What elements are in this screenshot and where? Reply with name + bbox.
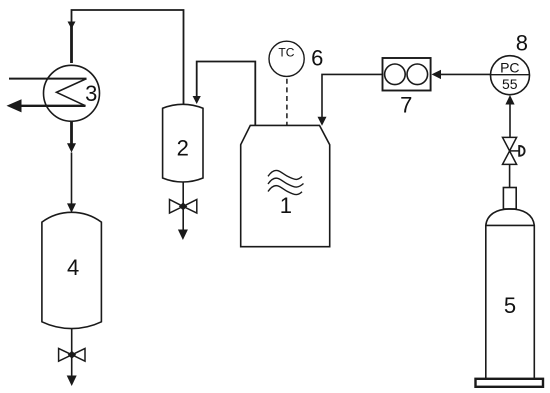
wave 3 (268, 186, 302, 195)
valve on cylinder line (503, 137, 520, 164)
dashed wire TC to reactor (286, 79, 288, 125)
arrow into heat exchanger top (68, 22, 76, 30)
cylinder 5 body (486, 209, 535, 379)
valve below tank 4 (59, 348, 85, 361)
arrow into tank 4 (67, 203, 76, 212)
heat exchanger coil zigzag (57, 79, 87, 106)
svg-text:PC: PC (500, 60, 519, 76)
pump box 7 (383, 58, 431, 91)
arrow outlet left (7, 99, 22, 112)
svg-text:7: 7 (400, 92, 412, 117)
wire: heat exchanger to tank 4 (thick) (70, 121, 73, 144)
svg-text:TC: TC (278, 46, 294, 60)
PC diameter line (491, 74, 530, 76)
wire: pump 7 to reactor 1 (322, 74, 383, 117)
pump circle right (407, 64, 428, 85)
arrow mid (67, 143, 76, 152)
svg-text:4: 4 (67, 255, 79, 280)
valve below vessel 2 (170, 200, 197, 214)
svg-text:1: 1 (280, 193, 292, 218)
svg-text:2: 2 (177, 136, 189, 161)
svg-text:6: 6 (311, 45, 323, 70)
reactor vessel 1 (241, 125, 330, 246)
arrow drain vessel 2 (178, 230, 188, 241)
wire: vapor line vessel 1 to vessel 2 (197, 62, 256, 126)
valve center dot (68, 351, 76, 359)
heat exchanger inlet line (9, 78, 87, 80)
wire: PC 8 to pump 7 (440, 73, 491, 75)
svg-text:3: 3 (85, 81, 97, 106)
valve center dot (179, 202, 187, 210)
tank 4 (42, 212, 102, 328)
wire: valve to PC (509, 103, 511, 137)
wire: cylinder to valve (509, 164, 511, 187)
wire: down to tank 4 (71, 153, 73, 205)
heat exchanger outlet line (19, 105, 86, 107)
wire: top return line into heat exchanger 3 (72, 10, 184, 104)
svg-text:8: 8 (516, 30, 528, 55)
arrow into reactor top (318, 117, 327, 126)
wave 1 (268, 170, 302, 179)
wire: tank 4 drain (71, 328, 73, 376)
arrow into vessel 2 top (193, 96, 201, 104)
vessel 2 (163, 104, 203, 182)
wire: vessel 2 drain (182, 182, 184, 230)
pump circle left (385, 64, 406, 85)
heat exchanger circle 3 (44, 65, 100, 121)
cylinder base (476, 379, 544, 387)
cylinder shoulder line (486, 224, 535, 226)
cylinder neck (503, 188, 516, 210)
svg-text:5: 5 (504, 293, 516, 318)
PC controller circle 8 (491, 56, 530, 95)
arrow drain tank 4 (67, 376, 77, 387)
TC controller circle (269, 41, 304, 76)
wave 2 (268, 178, 304, 187)
valve handle flag (519, 146, 524, 156)
svg-text:55: 55 (502, 76, 518, 92)
arrow into pump box (432, 70, 442, 79)
arrow up into PC bottom (505, 95, 514, 105)
